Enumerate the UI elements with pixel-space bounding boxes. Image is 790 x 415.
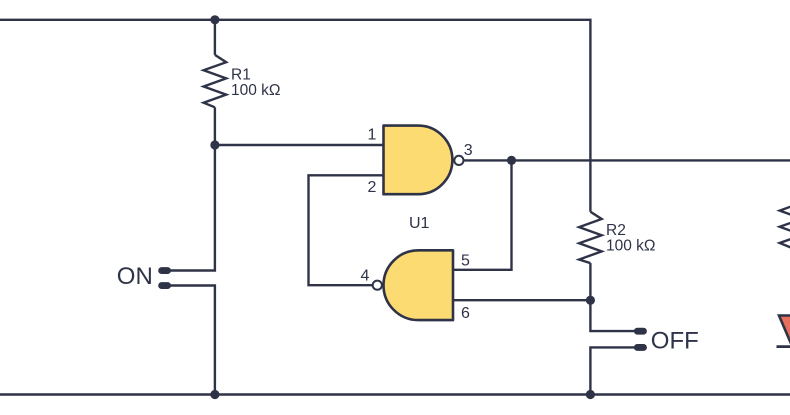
svg-text:100 kΩ: 100 kΩ (606, 238, 656, 255)
node R2 / pin 6 junction (586, 296, 595, 305)
wire ON switch bottom to ground rail (168, 286, 215, 395)
resistor R3 (right edge) (780, 195, 790, 247)
wire R2 bottom lead (589, 263, 591, 300)
wire junction to OFF switch top (590, 300, 634, 331)
wire pin 6 (453, 299, 590, 301)
svg-text:R2: R2 (606, 222, 626, 239)
svg-text:4: 4 (361, 268, 370, 285)
switch S1 ON terminal top (158, 267, 171, 274)
svg-text:3: 3 (464, 142, 473, 159)
node top rail / R1 junction (210, 15, 219, 24)
wire junction to ON switch top (168, 145, 215, 271)
switch S1 ON terminal bottom (158, 282, 171, 289)
node pin 3 junction (507, 156, 516, 165)
svg-text:R1: R1 (231, 67, 251, 84)
LED D1 cathode bar (777, 345, 790, 348)
svg-text:6: 6 (461, 305, 470, 322)
wire bottom rail (0, 393, 790, 395)
op gate U1a body (384, 126, 453, 195)
op gate U1b output bubble pin 4 (373, 281, 382, 290)
svg-text:5: 5 (461, 253, 470, 270)
wire OFF switch bottom to ground rail (590, 347, 634, 394)
LED D1 triangle (779, 316, 790, 344)
svg-text:U1: U1 (409, 215, 430, 232)
switch S2 OFF terminal bottom (634, 344, 647, 351)
wire top rail to R2 strand (0, 20, 590, 212)
node bottom rail / ON branch (210, 390, 219, 399)
resistor R2 (579, 212, 602, 263)
svg-text:ON: ON (117, 263, 153, 290)
op gate U1b body (mirrored) (384, 250, 454, 320)
wire pin 1 (215, 144, 384, 146)
resistor R1 (204, 55, 227, 107)
node bottom rail / OFF branch (586, 390, 595, 399)
wire R1 bottom lead (214, 107, 216, 145)
wire pin 3 (464, 159, 511, 161)
op gate U1a output bubble pin 3 (454, 156, 463, 165)
wire pin 5 feedback from pin 3 (453, 160, 512, 269)
switch S2 OFF terminal top (634, 328, 647, 335)
wire pin 2 feedback from pin 4 (309, 175, 384, 285)
svg-text:100 kΩ: 100 kΩ (231, 82, 281, 99)
svg-text:OFF: OFF (651, 328, 699, 355)
svg-text:1: 1 (368, 127, 377, 144)
wire pin 3 to right strand (512, 159, 790, 161)
svg-text:2: 2 (368, 179, 377, 196)
wire R1 top lead (214, 20, 216, 55)
node R1 / pin1 junction (210, 140, 219, 149)
